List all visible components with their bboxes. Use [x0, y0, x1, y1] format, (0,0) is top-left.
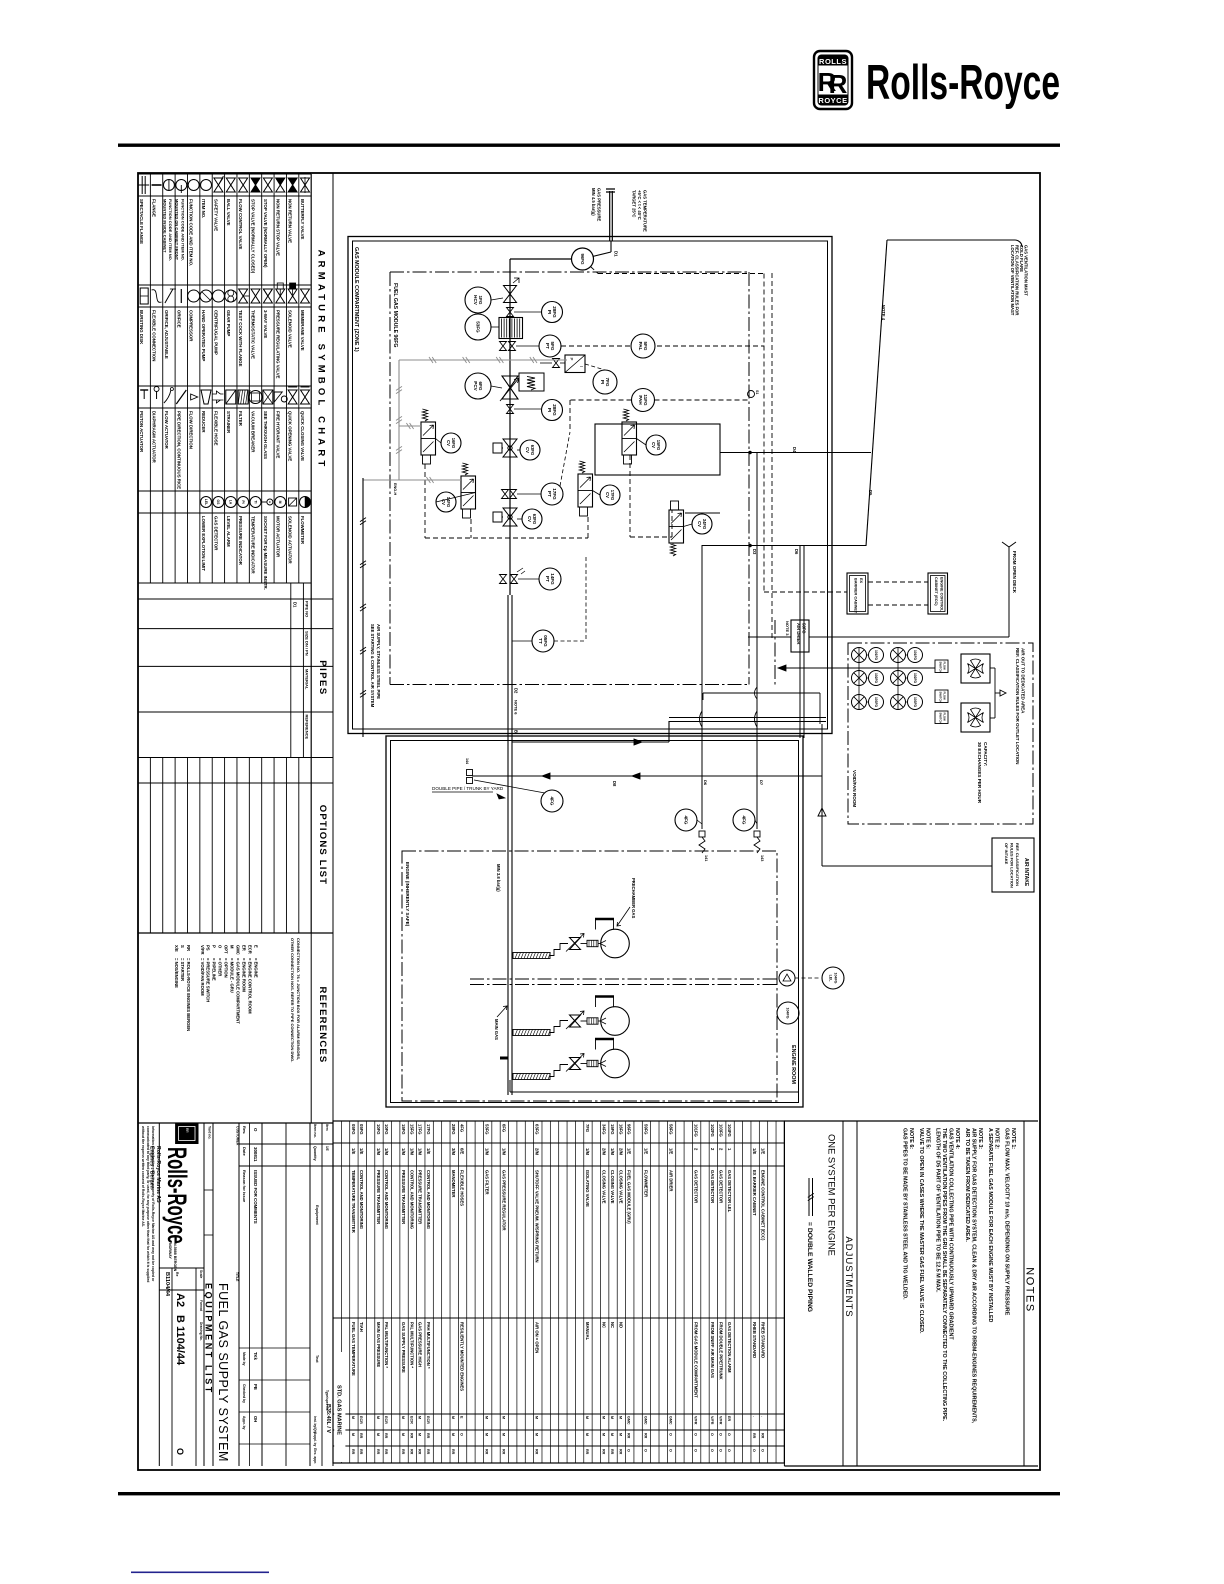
svg-text:GAS DETECTOR LEL: GAS DETECTOR LEL [727, 1170, 732, 1213]
svg-text:I: I [579, 366, 584, 367]
svg-text:PI: PI [241, 500, 245, 503]
svg-text:STRAINER: STRAINER [226, 411, 231, 434]
svg-text:LOWER EXPLOTION LIMIT: LOWER EXPLOTION LIMIT [201, 516, 206, 571]
svg-text:M: M [451, 1416, 455, 1419]
svg-text:SWITCH: SWITCH [939, 713, 943, 724]
svg-text:FLEXIBLE HOSE: FLEXIBLE HOSE [213, 411, 218, 446]
svg-text:O: O [694, 1449, 698, 1452]
svg-text:CUSTOMER: CUSTOMER [236, 1126, 240, 1146]
svg-text:30 EXCHANGES PER HOUR: 30 EXCHANGES PER HOUR [977, 742, 982, 804]
svg-text:CV: CV [446, 440, 451, 446]
sniff line D8 [467, 770, 473, 776]
svg-text:16FG: 16FG [618, 1124, 623, 1134]
svg-text:1/E: 1/E [359, 1148, 364, 1154]
svg-text:FUEL GAS MODULE (GRU): FUEL GAS MODULE (GRU) [627, 1170, 632, 1224]
svg-text:1/M: 1/M [376, 1148, 381, 1155]
svg-text:VALVE TO OPEN IN CASES WHERE T: VALVE TO OPEN IN CASES WHERE THE MASTER … [918, 1128, 924, 1334]
svg-text:TARGET 25°C: TARGET 25°C [632, 190, 637, 217]
svg-text:= PRESSURE SWITCH: = PRESSURE SWITCH [206, 958, 211, 1002]
svg-text:ORIFICE: ORIFICE [176, 310, 181, 328]
svg-text:RHEB STANDARD: RHEB STANDARD [760, 1322, 765, 1358]
svg-text:RR: RR [384, 1449, 388, 1455]
heat exchanger fans [961, 654, 990, 683]
svg-text:GAS DETECTOR: GAS DETECTOR [694, 1170, 699, 1203]
gas detector engine room [779, 970, 795, 986]
svg-text:28FG: 28FG [552, 404, 557, 416]
svg-text:Rolls-Royce: Rolls-Royce [162, 1147, 192, 1244]
svg-text:= GAS MODULE COMPARTMENT: = GAS MODULE COMPARTMENT [235, 958, 240, 1024]
svg-text:101FG: 101FG [694, 1124, 699, 1137]
svg-text:NON RETURN STOP VALVE: NON RETURN STOP VALVE [275, 199, 280, 256]
svg-text:MOTOR ACTUATOR: MOTOR ACTUATOR [275, 516, 280, 558]
svg-text:PI: PI [547, 310, 552, 314]
svg-text:ARMATURE SYMBOL CHART: ARMATURE SYMBOL CHART [316, 250, 327, 471]
svg-text:GAS DETECTOR: GAS DETECTOR [213, 516, 218, 551]
svg-text:102FG: 102FG [874, 673, 878, 684]
vent duct pair down to engine room [799, 546, 801, 738]
svg-text:.: . [752, 1416, 756, 1417]
svg-text:TKk: TKk [253, 1352, 258, 1361]
PT 17FG [502, 490, 509, 499]
svg-text:Elec. appr.: Elec. appr. [313, 1448, 317, 1464]
svg-text:63FG: 63FG [532, 514, 537, 524]
svg-text:B 1104/44: B 1104/44 [174, 1315, 186, 1366]
svg-text:58FG: 58FG [802, 623, 807, 633]
chart symbols row2 [140, 288, 148, 304]
svg-text:MOUNTED INSIDE CABINET: MOUNTED INSIDE CABINET [162, 199, 167, 253]
svg-text:PAL MULTIFUNCTION *: PAL MULTIFUNCTION * [409, 1322, 414, 1368]
svg-text:GAS FILTER: GAS FILTER [485, 1170, 490, 1195]
svg-text:34FG: 34FG [702, 519, 707, 529]
svg-text:FLOW CONTROL VALVE: FLOW CONTROL VALVE [238, 199, 243, 250]
svg-text:= MODULE - GRU: = MODULE - GRU [230, 958, 235, 993]
svg-text:SPECTACLE FLANGE: SPECTACLE FLANGE [139, 199, 144, 244]
svg-text:TEST COCK WITH FLANGE: TEST COCK WITH FLANGE [238, 310, 243, 367]
line with hop at 693 [703, 692, 820, 694]
svg-text:N-5888 BERGEN: N-5888 BERGEN [173, 1243, 177, 1272]
svg-text:FROM SNIFF AIR MAIN GAS: FROM SNIFF AIR MAIN GAS [710, 1322, 715, 1378]
svg-text:ECR: ECR [247, 945, 252, 954]
svg-text:O: O [710, 1449, 714, 1452]
svg-text:ECR: ECR [359, 1416, 363, 1424]
pipes table [138, 598, 333, 600]
RR marine logo badge [176, 1124, 198, 1144]
svg-text:DIAPHRAGM ACTUATOR: DIAPHRAGM ACTUATOR [152, 411, 157, 464]
svg-text:SEE STARTING & CONTROL AIR SYS: SEE STARTING & CONTROL AIR SYSTEM [370, 624, 375, 708]
svg-text:THE TWO VENTILATION PIPES FROM: THE TWO VENTILATION PIPES FROM THE GRU S… [941, 1128, 947, 1422]
svg-text:Text: Text [315, 1355, 319, 1363]
svg-text:2/M: 2/M [618, 1148, 623, 1155]
svg-text:P: P [212, 945, 217, 948]
svg-text:1/E: 1/E [426, 1148, 431, 1154]
svg-text:RULES FOR LOCATION: RULES FOR LOCATION [1010, 843, 1015, 888]
RAH 11FG [632, 389, 655, 412]
svg-text:RR: RR [585, 1449, 589, 1455]
svg-text:RR: RR [418, 1449, 422, 1455]
svg-text:= ROLLS-ROYCE ENGINES BERGEN: = ROLLS-ROYCE ENGINES BERGEN [186, 958, 191, 1031]
svg-text:D6: D6 [794, 549, 799, 555]
svg-text:RR: RR [185, 1128, 189, 1133]
svg-text:REFERENCE: REFERENCE [305, 715, 310, 740]
svg-text:15FG: 15FG [610, 1124, 615, 1134]
svg-text:.: . [760, 1416, 764, 1417]
svg-text:D1: D1 [293, 602, 298, 608]
svg-text:O: O [253, 1128, 258, 1132]
svg-text:PS: PS [206, 945, 211, 951]
svg-text:RR: RR [485, 1449, 489, 1455]
svg-text:LENGTH OF D5 PART OF VENTILATI: LENGTH OF D5 PART OF VENTILATION PIPE TO… [935, 1128, 941, 1293]
svg-text:ENGINE ROOM: ENGINE ROOM [790, 1045, 796, 1084]
svg-text:59FG: 59FG [643, 1124, 648, 1134]
svg-text:O: O [668, 1433, 672, 1436]
svg-text:GS: GS [216, 500, 220, 506]
svg-text:NOTE 3:: NOTE 3: [977, 1128, 983, 1149]
svg-text:4FG: 4FG [741, 816, 746, 825]
svg-text:NOTE 2:: NOTE 2: [994, 1128, 1000, 1149]
svg-text:RR: RR [760, 1433, 764, 1439]
svg-text:TEMPERATURE INDICATOR: TEMPERATURE INDICATOR [251, 516, 256, 575]
svg-text:17FG: 17FG [418, 1124, 423, 1134]
svg-text:D5: D5 [868, 490, 873, 496]
svg-text:STD. GAS MARINE: STD. GAS MARINE [336, 1385, 342, 1435]
svg-text:Reason for issue: Reason for issue [242, 1170, 247, 1203]
svg-text:ENGINE CONTROL: ENGINE CONTROL [940, 577, 944, 612]
svg-text:ENGINE CONTROL CABINET (ECC): ENGINE CONTROL CABINET (ECC) [760, 1170, 765, 1241]
svg-text:63FG: 63FG [535, 1124, 540, 1134]
title block [158, 1123, 160, 1466]
svg-text:CENTRIFUGAL PUMP: CENTRIFUGAL PUMP [213, 310, 218, 355]
svg-text:X/E: X/E [174, 945, 179, 952]
double wall pipe to fan room [669, 717, 826, 719]
EX barrier cabinet [847, 573, 868, 614]
svg-text:OF INTAKE: OF INTAKE [1004, 843, 1009, 865]
svg-text:RHEB STANDARD: RHEB STANDARD [752, 1322, 757, 1358]
chart symbols row4 [201, 497, 212, 508]
svg-text:AIR ON = OPEN: AIR ON = OPEN [535, 1322, 540, 1353]
svg-text:103FG: 103FG [719, 1124, 724, 1137]
svg-text:MEMBRANE VALVE: MEMBRANE VALVE [300, 310, 305, 351]
svg-text:7FG: 7FG [585, 1124, 590, 1132]
svg-text:3/M: 3/M [451, 1148, 456, 1155]
svg-text:TIAH: TIAH [359, 1322, 364, 1332]
svg-text:ROLLS: ROLLS [819, 57, 847, 66]
svg-text:CONTROL AND MONITORING: CONTROL AND MONITORING [409, 1170, 414, 1229]
svg-text:1/E: 1/E [760, 1148, 765, 1154]
svg-text:Suppl. by: Suppl. by [313, 1432, 317, 1447]
svg-text:Appr. by: Appr. by [242, 1416, 246, 1430]
svg-text:10FG: 10FG [376, 1124, 381, 1134]
svg-text:O: O [727, 1433, 731, 1436]
svg-text:FUEL GAS MODULE 96FG: FUEL GAS MODULE 96FG [392, 283, 398, 347]
svg-text:Rolls-Royce Marine AS: Rolls-Royce Marine AS [155, 1146, 161, 1203]
svg-text:D3: D3 [752, 549, 757, 555]
svg-text:AIR DRIER: AIR DRIER [796, 623, 801, 644]
svg-text:V/FR: V/FR [200, 945, 205, 955]
svg-text:14FG: 14FG [550, 573, 555, 585]
svg-text:CAPACITY:: CAPACITY: [983, 742, 988, 767]
drawing frame [138, 173, 1040, 1470]
svg-text:AIR INTAKE: AIR INTAKE [1023, 858, 1029, 887]
svg-text:ISSUED FOR COMMENTS: ISSUED FOR COMMENTS [253, 1170, 258, 1224]
svg-text:B1104/44: B1104/44 [164, 1272, 170, 1297]
svg-text:PB: PB [253, 1384, 258, 1390]
svg-text:ND: ND [618, 1322, 623, 1328]
svg-text:BALL VALVE: BALL VALVE [226, 199, 231, 226]
from open deck [1002, 542, 1016, 547]
svg-text:101FG: 101FG [913, 650, 917, 661]
svg-text:LEVEL ALARM: LEVEL ALARM [226, 516, 231, 547]
svg-text:M: M [401, 1433, 405, 1436]
options list [138, 782, 333, 784]
svg-text:5FG: 5FG [550, 342, 555, 351]
svg-text:M: M [418, 1433, 422, 1436]
svg-text:M: M [230, 945, 235, 949]
svg-text:GAS FLOW MAX. VELOCITY 10 m/s,: GAS FLOW MAX. VELOCITY 10 m/s, DEPENDING… [1004, 1128, 1010, 1316]
svg-text:RR: RR [409, 1433, 413, 1439]
svg-text:GMC: GMC [668, 1416, 672, 1425]
svg-text:1/E: 1/E [325, 1146, 329, 1151]
svg-text:RR: RR [351, 1449, 355, 1455]
svg-text:M: M [602, 1433, 606, 1436]
svg-text:CV: CV [651, 442, 656, 448]
void/fan room dash-dot box [848, 643, 1033, 824]
svg-text:17FG: 17FG [610, 490, 615, 500]
svg-text:141: 141 [704, 855, 708, 861]
svg-text:MAIN GAS: MAIN GAS [494, 1019, 499, 1040]
svg-text:GAS VENTILATION COLLECTING PIP: GAS VENTILATION COLLECTING PIPE WITH CON… [948, 1128, 954, 1340]
svg-text:= STARTER: = STARTER [180, 958, 185, 981]
svg-text:CV: CV [697, 521, 702, 527]
svg-text:O: O [752, 1449, 756, 1452]
svg-text:NORWAY: NORWAY [168, 1243, 172, 1259]
double walled main pipe [507, 595, 509, 1095]
svg-text:TITLE: TITLE [235, 1272, 239, 1282]
vent headers [720, 452, 871, 454]
svg-text:RESILIENTLY MOUNTED ENGINES: RESILIENTLY MOUNTED ENGINES [459, 1322, 464, 1391]
svg-text:RR: RR [376, 1449, 380, 1455]
svg-text:PT: PT [547, 491, 552, 497]
4FG hoses to engines [675, 809, 697, 831]
svg-text:VOID/FAN ROOM: VOID/FAN ROOM [852, 770, 857, 807]
svg-text:M: M [376, 1433, 380, 1436]
references section [138, 1122, 333, 1124]
svg-text:NC: NC [610, 1322, 615, 1328]
svg-text:= ENGINE CONTROL ROOM: = ENGINE CONTROL ROOM [247, 958, 252, 1014]
svg-text:GMC: GMC [235, 945, 240, 955]
svg-text:1/E: 1/E [351, 1148, 356, 1154]
svg-text:LEL: LEL [828, 975, 832, 983]
svg-text:M: M [585, 1416, 589, 1419]
svg-text:RR: RR [401, 1449, 405, 1455]
svg-text:LA: LA [229, 500, 233, 505]
svg-text:B: B [514, 730, 519, 733]
footer link line [131, 1572, 269, 1574]
svg-text:PRESSURE INDICATOR: PRESSURE INDICATOR [238, 516, 243, 566]
svg-text:PI: PI [547, 408, 552, 412]
svg-text:ADJUSTMENTS: ADJUSTMENTS [843, 1236, 854, 1317]
air supply stainless pipe down [362, 478, 364, 737]
svg-text:D6: D6 [703, 780, 708, 786]
svg-text:V/FR: V/FR [694, 1416, 698, 1425]
svg-text:Format: Format [199, 1300, 203, 1312]
svg-text:TI: TI [253, 500, 257, 503]
svg-text:O: O [643, 1449, 647, 1452]
svg-text:1/E: 1/E [643, 1148, 648, 1154]
svg-text:O: O [627, 1449, 631, 1452]
svg-text:D8: D8 [612, 781, 617, 787]
svg-text:7FG: 7FG [605, 378, 610, 387]
svg-text:RR: RR [186, 945, 191, 951]
svg-text:1/E: 1/E [668, 1148, 673, 1154]
svg-text:ITEM NO.: ITEM NO. [201, 199, 206, 218]
svg-text:REF. CLASSIFICATION RULES FOR: REF. CLASSIFICATION RULES FOR OUTLET LOC… [1015, 648, 1020, 764]
svg-text:96FG: 96FG [580, 254, 585, 266]
svg-text:FROM DOUBLE PIPE/TRUNK: FROM DOUBLE PIPE/TRUNK [719, 1322, 724, 1380]
svg-text:GAS DETECTOR: GAS DETECTOR [710, 1170, 715, 1203]
svg-text:RR: RR [535, 1449, 539, 1455]
svg-text:104FG: 104FG [833, 973, 837, 984]
svg-text:34FG: 34FG [602, 1124, 607, 1134]
svg-text:M: M [618, 1433, 622, 1436]
svg-text:M: M [618, 1416, 622, 1419]
svg-text:2/M: 2/M [535, 1148, 540, 1155]
PI 7FG [593, 370, 617, 394]
svg-text:V/FR: V/FR [719, 1416, 723, 1425]
svg-text:SOCKET FOR Dp MEASURE INSTR.: SOCKET FOR Dp MEASURE INSTR. [263, 516, 268, 590]
svg-text:58FG: 58FG [668, 1124, 673, 1134]
svg-text:GAS PIPES TO BE MADE BY STAINL: GAS PIPES TO BE MADE BY STAINLESS STEEL … [902, 1128, 908, 1300]
svg-text:MAIN GAS PRESSURE: MAIN GAS PRESSURE [376, 1322, 381, 1367]
svg-text:53FG: 53FG [485, 1124, 490, 1134]
svg-text:SEE THROUGH GLASS: SEE THROUGH GLASS [263, 411, 268, 459]
svg-text:SWITCH: SWITCH [939, 662, 943, 673]
svg-text:+5°C < t < 40°C: +5°C < t < 40°C [637, 190, 642, 220]
svg-text:6/E: 6/E [459, 1148, 464, 1154]
fuel gas module dash-dot box [390, 271, 750, 273]
svg-text:PT: PT [545, 343, 550, 349]
svg-text:HAND OPERATED PUMP: HAND OPERATED PUMP [201, 310, 206, 361]
svg-text:1/M: 1/M [401, 1148, 406, 1155]
svg-text:SAFETY VALVE: SAFETY VALVE [213, 199, 218, 231]
svg-text:Equipment: Equipment [315, 1205, 319, 1225]
svg-text:NOTE 6:: NOTE 6: [908, 1128, 914, 1149]
svg-text:MATERIAL: MATERIAL [305, 669, 310, 690]
svg-text:Inst. by/Qty: Inst. by/Qty [313, 1416, 317, 1434]
svg-text:Item no.: Item no. [313, 1124, 317, 1138]
svg-text:PAL MULTIFUNCTION *: PAL MULTIFUNCTION * [384, 1322, 389, 1368]
pipe bottom run [509, 1080, 511, 1092]
chart symbols row1 [141, 176, 143, 194]
svg-text:1/M: 1/M [610, 1148, 615, 1155]
svg-text:DOUBLE PIPE / TRUNK BY YARD: DOUBLE PIPE / TRUNK BY YARD [432, 786, 504, 791]
svg-text:E: E [253, 945, 258, 948]
svg-text:MIN 3.8 bar(g): MIN 3.8 bar(g) [496, 864, 501, 892]
svg-text:NC: NC [602, 1322, 607, 1328]
svg-text:63FG: 63FG [530, 445, 535, 455]
svg-text:05FG: 05FG [359, 1124, 364, 1134]
main gas pipe (vertical) [509, 259, 511, 595]
svg-text:FLANGE: FLANGE [152, 199, 157, 217]
valves + PT 14FG lower [500, 575, 507, 584]
svg-text:THERMOSTATIC VALVE: THERMOSTATIC VALVE [251, 310, 256, 359]
valves + PT 5FG [500, 342, 507, 351]
svg-text:10FG: 10FG [384, 1124, 389, 1134]
svg-text:CV: CV [605, 492, 610, 498]
Rolls-Royce header badge [814, 51, 852, 109]
svg-text:ER: ER [241, 945, 246, 951]
svg-text:PI: PI [600, 380, 605, 384]
shutoff valve CV 63FG no2 [503, 508, 517, 526]
D5 node circle [748, 391, 755, 398]
svg-text:PAL: PAL [638, 342, 643, 351]
svg-text:103FG: 103FG [913, 697, 917, 708]
svg-text:P: P [569, 358, 574, 361]
solenoid valve block C (CV 17FG) [578, 474, 593, 507]
svg-text:5FG: 5FG [643, 342, 648, 351]
svg-text:M: M [485, 1433, 489, 1436]
svg-text:NOTE 5:: NOTE 5: [925, 1128, 931, 1149]
svg-text:NOTE 4: NOTE 4 [881, 305, 886, 321]
svg-text:103FG: 103FG [874, 697, 878, 708]
svg-text:PAH MULTIFUNCTION *: PAH MULTIFUNCTION * [426, 1322, 431, 1369]
svg-text:= PIPELINE: = PIPELINE [212, 958, 217, 981]
bottom rule [118, 1492, 1060, 1495]
svg-text:REFERENCES: REFERENCES [317, 987, 328, 1064]
svg-text:EQUIPMENT LIST: EQUIPMENT LIST [204, 1283, 214, 1395]
svg-text:M: M [376, 1416, 380, 1419]
svg-text:1/E: 1/E [627, 1148, 632, 1154]
svg-text:AIR TO BE TAKEN FROM DEDICATED: AIR TO BE TAKEN FROM DEDICATED AREA. [964, 1128, 970, 1242]
svg-text:S: S [180, 945, 185, 948]
svg-text:RR: RR [359, 1433, 363, 1439]
enclosure rect right [595, 424, 720, 475]
svg-text:101FG: 101FG [874, 650, 878, 661]
svg-text:SOLENOID VALVE: SOLENOID VALVE [288, 310, 293, 348]
P/I converter [565, 355, 585, 373]
svg-text:53FG: 53FG [475, 321, 480, 333]
svg-text:EX BARRIER CABINET: EX BARRIER CABINET [752, 1170, 757, 1216]
fan units [852, 648, 867, 663]
svg-text:104FG: 104FG [786, 1008, 790, 1019]
dashed signal from 96FG to cabinets [591, 267, 599, 274]
svg-text:RR: RR [752, 1433, 756, 1439]
svg-text:1/M: 1/M [485, 1148, 490, 1155]
tap + PI 28FG upper [507, 308, 514, 317]
svg-text:FLEXIBLE CONNECTION: FLEXIBLE CONNECTION [152, 310, 157, 361]
svg-text:1/M: 1/M [384, 1148, 389, 1155]
adjustments box [783, 1121, 785, 1466]
svg-text:M: M [278, 501, 282, 504]
svg-text:VACUUM BREAKER: VACUUM BREAKER [251, 411, 256, 453]
svg-text:Drawing No.: Drawing No. [199, 1322, 203, 1341]
svg-text:O: O [710, 1433, 714, 1436]
svg-text:= NOS/ENGINE: = NOS/ENGINE [174, 958, 179, 988]
svg-text:BUTTERFLY VALVE: BUTTERFLY VALVE [300, 199, 305, 239]
svg-text:4FG: 4FG [549, 797, 554, 806]
engine branches [513, 953, 550, 959]
svg-text:CLOSING VALVE: CLOSING VALVE [610, 1170, 615, 1204]
air intake duct [821, 724, 823, 866]
svg-text:FLOW ACTUATOR: FLOW ACTUATOR [164, 411, 169, 450]
title block grid [159, 1267, 204, 1269]
svg-text:= OTHER: = OTHER [218, 958, 223, 976]
svg-text:3-WAY VALVE: 3-WAY VALVE [263, 310, 268, 338]
svg-text:Quantity: Quantity [313, 1146, 317, 1161]
svg-text:FUNCTION CODE AND ITEM NO.: FUNCTION CODE AND ITEM NO. [189, 199, 194, 266]
svg-text:17FG: 17FG [552, 488, 557, 500]
air intake box [992, 838, 1034, 892]
equipment list grid [333, 1121, 784, 1463]
